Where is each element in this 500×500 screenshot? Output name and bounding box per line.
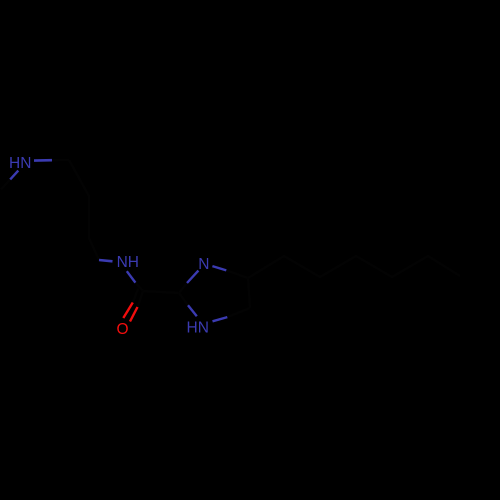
wire: right-side alkyl chain (near-invisible) <box>248 256 460 278</box>
wire: ring N1-C4 blue half <box>212 266 226 270</box>
wire: HN-CH2 carbon half <box>52 159 69 162</box>
wire: ring C2-N1 carbon half <box>179 283 187 293</box>
svg-text:HN: HN <box>9 155 31 172</box>
wire: ring N1-C2 blue half <box>187 271 198 283</box>
wire: chain into NH, blue half <box>99 260 113 261</box>
wire: HN to CH2 right, blue half <box>34 159 52 162</box>
wire: C(=O)-C2 bond <box>143 291 179 293</box>
wire: ring N1-C4 carbon half <box>226 270 248 278</box>
wire: methyl C to amine N, carbon half (near-invisible) <box>1 179 10 189</box>
wire: NH to carbonyl C, blue half <box>127 271 136 282</box>
svg-text:N: N <box>198 256 209 273</box>
svg-text:HN: HN <box>187 319 209 336</box>
wire: ring C2-N3 carbon half <box>179 293 188 305</box>
wire: C=O double bond carbon halves <box>138 291 144 307</box>
wire: N-CH3 bond blue half at HN top-left <box>10 171 18 180</box>
wire: ring N3-C2 blue half <box>188 305 197 316</box>
wire: propyl chain C-C segments <box>69 160 99 260</box>
wire: ring C4-C5 bond <box>248 278 250 308</box>
svg-text:O: O <box>116 321 128 338</box>
svg-text:NH: NH <box>117 254 139 271</box>
wire: ring N3-C5 carbon half <box>227 308 250 317</box>
wire: NH-C(=O) carbon half <box>135 283 143 291</box>
wire: C=O oxygen-side red halves (double bond) <box>130 307 138 322</box>
wire: ring N3-C5 blue half <box>213 317 228 321</box>
